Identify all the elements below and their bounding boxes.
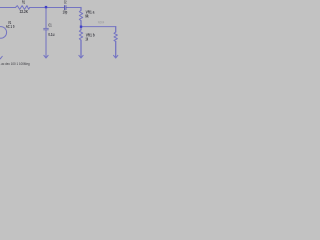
svg-text:9k: 9k — [85, 14, 89, 19]
svg-text:AC 1 0: AC 1 0 — [6, 24, 15, 29]
svg-text:N004: N004 — [98, 21, 105, 25]
svg-text:C1: C1 — [48, 22, 52, 27]
svg-text:R1: R1 — [22, 0, 25, 5]
svg-text:10p: 10p — [63, 10, 68, 15]
svg-text:0.1u: 0.1u — [48, 32, 55, 37]
svg-text:1k: 1k — [85, 37, 88, 42]
svg-text:C2: C2 — [64, 0, 67, 5]
svg-text:.ac dec 100 1 100Meg: .ac dec 100 1 100Meg — [0, 61, 29, 66]
svg-text:22.2K: 22.2K — [20, 9, 28, 14]
